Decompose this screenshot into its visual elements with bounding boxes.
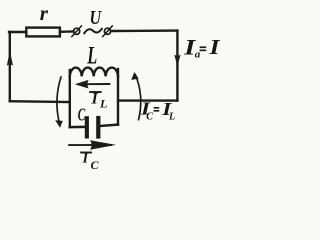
circulating current right arrowhead: [131, 72, 139, 80]
wire resistor to source: [60, 30, 74, 33]
wire top-left horizontal: [9, 31, 26, 33]
arrow down on right wire: [174, 55, 180, 67]
terminal left slash: [72, 26, 82, 37]
circulating current left arc: [57, 76, 61, 124]
tank right vertical wire: [117, 69, 119, 125]
svg-text:I: I: [82, 151, 89, 167]
svg-text:L: L: [168, 111, 175, 122]
arrow IC head (points right): [90, 140, 116, 149]
wire left vertical: [9, 32, 11, 101]
source terminal left: [74, 28, 80, 34]
svg-text:U: U: [90, 7, 103, 29]
svg-text:L: L: [87, 41, 98, 70]
capacitor C right plate: [96, 116, 100, 139]
inductor L coil: [70, 68, 118, 77]
svg-text:L: L: [99, 96, 107, 110]
tank left vertical wire: [69, 70, 71, 127]
circulating current left arrowhead: [55, 120, 63, 128]
tank bottom wire right of capacitor: [100, 125, 118, 126]
svg-text:I: I: [208, 35, 220, 59]
arrow IL head (points left): [75, 80, 89, 89]
svg-text:I: I: [91, 91, 99, 108]
svg-text:C: C: [78, 105, 86, 125]
source tilde: [84, 29, 102, 33]
IL overbar: [89, 91, 101, 93]
terminal right slash: [103, 26, 113, 37]
wire bottom-right horizontal: [118, 99, 177, 101]
wire bottom-left horizontal: [10, 100, 70, 103]
source terminal right: [104, 28, 110, 34]
tank bottom wire left of capacitor: [70, 126, 85, 129]
arrow up on left wire: [7, 51, 13, 66]
circulating current right arc: [135, 74, 141, 120]
svg-text:C: C: [146, 111, 153, 122]
wire top-right horizontal: [111, 29, 177, 32]
svg-text:C: C: [91, 158, 100, 172]
IC overbar: [80, 152, 92, 154]
capacitor C left plate: [85, 116, 89, 138]
arrow IC shaft: [68, 144, 112, 146]
arrow IL shaft: [84, 83, 110, 85]
resistor r: [26, 28, 60, 37]
wire right vertical: [176, 31, 178, 101]
svg-text:r: r: [40, 1, 49, 25]
